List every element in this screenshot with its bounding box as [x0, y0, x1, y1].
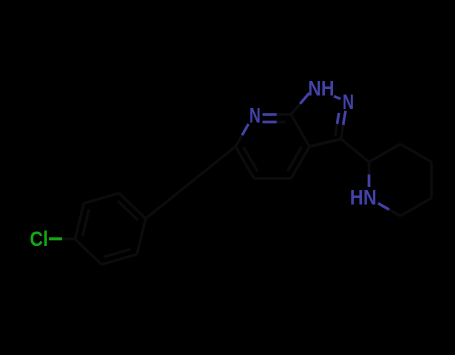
double bond C3=C4 [119, 193, 146, 219]
bond Cl-C1 (dark half) [62, 237, 75, 240]
pyrazole: bond C7a-N1H [291, 104, 300, 115]
double bond N2=C3 [343, 111, 345, 125]
svg-text:Cl: Cl [30, 228, 48, 251]
bond C4-C5 piperidine [430, 162, 433, 198]
ethylene chain bond 2 [176, 171, 206, 195]
double bond C3a=C4 [291, 147, 310, 179]
svg-text:N: N [343, 91, 354, 114]
bond N1-C6 pyridine [242, 124, 249, 135]
double bond N1=C7a pyridine [263, 113, 277, 116]
bond C3-C3a [310, 139, 342, 147]
svg-text:HN: HN [350, 187, 377, 210]
double bond C5=C6 pyridine [236, 147, 255, 179]
bond N1H-N2 [334, 96, 341, 99]
ethylene chain bond 1 [146, 195, 176, 219]
bond C6-C1 [75, 239, 102, 265]
bond C3 to piperidine C2 [341, 139, 369, 162]
svg-text:NH: NH [308, 77, 334, 100]
bond C3-C4 piperidine [400, 144, 431, 162]
bond C2-C3 piperidine [369, 144, 400, 162]
double bond C1=C2 [75, 203, 84, 239]
bond C5-C6 piperidine [400, 198, 431, 216]
bond N1H-C6 piperidine [378, 203, 389, 209]
bond C4-C5 [137, 219, 146, 255]
double bond C5=C6 [102, 254, 137, 264]
bond C4-C5 pyridine [254, 177, 291, 180]
svg-text:N: N [249, 104, 260, 127]
piperidine: bond C2-N1H [368, 162, 371, 175]
benzene ring (4-chlorophenyl): bond C2-C3 [84, 193, 119, 203]
ethylene chain bond 3 [206, 147, 236, 171]
pyridine ring: fusion bond C7a-C3a [291, 115, 310, 147]
bond Cl-C1 (green half at label) [49, 237, 62, 240]
